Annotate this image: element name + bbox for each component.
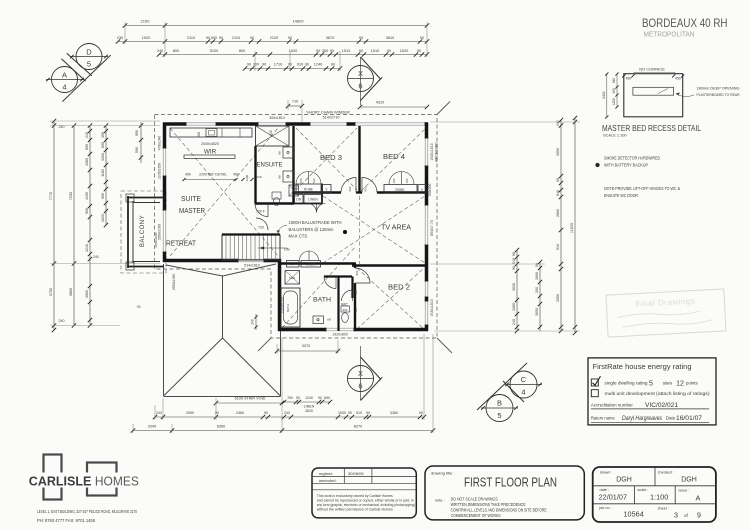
svg-text:90: 90 xyxy=(512,266,516,270)
svg-text:1290: 1290 xyxy=(245,174,249,181)
svg-text:11520: 11520 xyxy=(570,223,574,233)
svg-text:7290: 7290 xyxy=(69,192,73,200)
svg-text:2950x1090: 2950x1090 xyxy=(158,224,162,240)
svg-text:job no. :: job no. : xyxy=(598,506,613,510)
svg-text:DN: DN xyxy=(296,198,301,202)
svg-text:TV AREA: TV AREA xyxy=(381,225,411,232)
windows on right wall xyxy=(425,138,429,166)
svg-text:240: 240 xyxy=(556,120,560,126)
svg-text:900: 900 xyxy=(85,208,89,214)
svg-text:BORDEAUX 40 RH: BORDEAUX 40 RH xyxy=(642,16,728,30)
svg-text:90: 90 xyxy=(331,63,335,67)
svg-text:1510: 1510 xyxy=(342,49,350,53)
balustrade wall xyxy=(222,233,280,235)
corridor boxes DN LINEN xyxy=(295,195,304,204)
svg-text:1085: 1085 xyxy=(85,158,89,166)
right dimension chain b (overall) xyxy=(574,118,576,333)
svg-text:12: 12 xyxy=(676,380,684,387)
wc toilet xyxy=(341,306,350,312)
section cut lines top-left xyxy=(67,53,92,75)
linen v boxes lower xyxy=(287,261,300,268)
svg-text:90: 90 xyxy=(417,49,421,53)
left mid dimension chain xyxy=(140,122,142,163)
svg-text:Accreditation number: Accreditation number xyxy=(591,403,633,408)
top dimension tier 4 xyxy=(245,68,340,70)
svg-text:VB: VB xyxy=(327,318,331,322)
svg-text:590: 590 xyxy=(135,147,139,153)
ensuite skylight hatch xyxy=(256,126,290,146)
small dim 240 left of wing xyxy=(255,314,257,330)
svg-text:METROPOLITAN: METROPOLITAN xyxy=(644,30,695,39)
section marker X/6 bottom xyxy=(348,366,374,392)
svg-text:1240: 1240 xyxy=(85,244,89,252)
svg-text:720: 720 xyxy=(405,178,409,183)
svg-text:240: 240 xyxy=(156,411,162,415)
svg-text:2040x4520: 2040x4520 xyxy=(201,142,219,146)
carlisle logo bracket 1 xyxy=(44,455,62,500)
svg-text:3100: 3100 xyxy=(210,49,218,53)
svg-text:LEVEL 1, EAST BUILDING, 327-34: LEVEL 1, EAST BUILDING, 327-347 POLICE R… xyxy=(37,509,138,514)
svg-text:3050: 3050 xyxy=(535,308,539,316)
lower wing interior xyxy=(281,262,356,264)
svg-text:90: 90 xyxy=(250,36,254,40)
svg-text:3670: 3670 xyxy=(326,36,334,40)
svg-text:1080: 1080 xyxy=(512,303,516,311)
svg-text:VIC/02/021: VIC/02/021 xyxy=(645,402,678,409)
svg-text:90: 90 xyxy=(296,396,300,400)
svg-text:This work is exclusively owned: This work is exclusively owned by Carlis… xyxy=(317,494,393,498)
svg-text:890: 890 xyxy=(101,142,105,148)
svg-text:1200: 1200 xyxy=(612,98,616,105)
svg-text:2150: 2150 xyxy=(141,19,151,24)
svg-text:90: 90 xyxy=(330,49,334,53)
svg-text:90: 90 xyxy=(262,63,266,67)
svg-text:issue :: issue : xyxy=(679,488,690,492)
ceiling diagonal bed4 xyxy=(361,129,425,191)
svg-text:890: 890 xyxy=(85,144,89,150)
svg-text:514x1810: 514x1810 xyxy=(244,264,259,268)
svg-text:1690: 1690 xyxy=(535,272,539,280)
svg-text:3050: 3050 xyxy=(556,294,560,302)
left dimension chain 1 xyxy=(53,121,55,330)
ensuite door xyxy=(255,204,268,217)
svg-text:3: 3 xyxy=(674,513,678,520)
svg-text:450: 450 xyxy=(233,173,239,177)
svg-text:Date: Date xyxy=(666,416,676,421)
svg-text:540: 540 xyxy=(512,258,516,264)
dimension extension verticals top xyxy=(124,22,126,44)
svg-text:1710: 1710 xyxy=(274,63,282,67)
svg-text:540: 540 xyxy=(269,130,273,136)
svg-text:4310: 4310 xyxy=(376,101,384,105)
svg-text:WRITTEN DIMENSIONS TAKE PRECED: WRITTEN DIMENSIONS TAKE PRECEDENCE xyxy=(451,502,526,507)
svg-text:2460: 2460 xyxy=(236,411,244,415)
left wing bottom wall xyxy=(163,259,281,263)
svg-text:90: 90 xyxy=(512,252,516,256)
svg-text:LINEN: LINEN xyxy=(308,198,318,202)
svg-text:ENSUITE WC DOOR: ENSUITE WC DOOR xyxy=(604,193,638,198)
svg-text:720: 720 xyxy=(299,178,303,183)
bath vanity xyxy=(313,316,324,324)
svg-text:14820: 14820 xyxy=(292,19,304,24)
linen double doors xyxy=(308,204,317,213)
svg-text:RECESSED: RECESSED xyxy=(435,142,439,162)
svg-text:3030: 3030 xyxy=(512,283,516,291)
ceiling diagonals bed3 xyxy=(296,128,357,190)
svg-text:A: A xyxy=(62,71,67,80)
svg-text:300x300: 300x300 xyxy=(428,184,432,197)
window on retreat bottom wall xyxy=(238,259,264,263)
svg-text:450: 450 xyxy=(675,77,681,81)
svg-text:2110: 2110 xyxy=(187,36,195,40)
svg-text:HOMES: HOMES xyxy=(95,474,139,489)
svg-text:2440: 2440 xyxy=(602,91,606,99)
corner hip marks xyxy=(437,338,452,353)
svg-text:2040: 2040 xyxy=(148,425,156,429)
svg-text:500: 500 xyxy=(211,36,217,40)
svg-text:FirstRate house energy rating: FirstRate house energy rating xyxy=(593,364,692,371)
dim 4310 top right xyxy=(360,106,427,108)
ensuite wc + shower xyxy=(272,192,281,199)
svg-text:ROBE: ROBE xyxy=(304,188,313,192)
svg-text:90: 90 xyxy=(348,411,352,415)
svg-text:5100 STAIR VOID: 5100 STAIR VOID xyxy=(235,397,266,401)
svg-text:1240: 1240 xyxy=(314,63,322,67)
svg-text:ENSUITE: ENSUITE xyxy=(257,163,283,169)
svg-text:PLASTERBOARD TO REAR: PLASTERBOARD TO REAR xyxy=(697,92,740,97)
svg-text:8540/7.70: 8540/7.70 xyxy=(430,220,434,236)
stairs xyxy=(222,235,280,260)
WIR internal dim xyxy=(184,179,236,181)
svg-text:720: 720 xyxy=(354,290,358,295)
svg-text:DO NOT SCALE DRAWINGS: DO NOT SCALE DRAWINGS xyxy=(451,496,498,501)
svg-text:300: 300 xyxy=(322,49,328,53)
svg-text:90: 90 xyxy=(387,49,391,53)
svg-text:5: 5 xyxy=(87,60,91,69)
svg-text:720: 720 xyxy=(354,307,358,312)
left dimension chain 2 xyxy=(73,126,75,326)
ensuite vanity xyxy=(283,147,294,158)
svg-text:BALCONY: BALCONY xyxy=(140,215,146,247)
svg-text:DN: DN xyxy=(284,248,290,252)
lower wing left wall xyxy=(278,259,282,331)
svg-text:scale :: scale : xyxy=(637,488,648,492)
svg-text:90: 90 xyxy=(288,36,292,40)
svg-text:CARLISLE: CARLISLE xyxy=(29,474,92,489)
svg-text:450: 450 xyxy=(626,77,632,81)
svg-text:BED 4: BED 4 xyxy=(383,154,405,161)
svg-text:90: 90 xyxy=(219,36,223,40)
smoke detector note xyxy=(596,163,600,167)
svg-text:COMMENCEMENT OF WORKS: COMMENCEMENT OF WORKS xyxy=(451,513,501,518)
svg-text:820: 820 xyxy=(364,186,368,191)
svg-text:SUITE: SUITE xyxy=(181,196,201,203)
svg-text:3050: 3050 xyxy=(556,148,560,156)
svg-text:90: 90 xyxy=(137,305,141,309)
svg-text:820: 820 xyxy=(348,186,352,191)
wc door xyxy=(342,290,353,301)
balcony eaves dashed xyxy=(121,191,166,273)
svg-text:510: 510 xyxy=(556,244,560,250)
svg-text:240: 240 xyxy=(157,49,163,53)
bed4 door xyxy=(362,178,377,193)
svg-text:drawn :: drawn : xyxy=(600,470,612,474)
left dimension chain 3 xyxy=(89,126,91,326)
svg-text:3260: 3260 xyxy=(101,153,105,161)
svg-text:240: 240 xyxy=(284,411,290,415)
svg-text:2950: 2950 xyxy=(186,411,194,415)
lower linen doors xyxy=(300,251,310,261)
svg-text:multi unit development (attac: multi unit development (attach listing o… xyxy=(605,391,711,396)
svg-text:2200 REF DETAIL: 2200 REF DETAIL xyxy=(199,173,227,177)
svg-text:5: 5 xyxy=(497,411,501,420)
svg-text:CONFIRM ALL LEVELS AND DIMENSI: CONFIRM ALL LEVELS AND DIMENSIONS ON SIT… xyxy=(451,507,547,512)
left dimension chain 4 xyxy=(105,126,107,226)
svg-text:2620: 2620 xyxy=(305,409,313,413)
svg-text:1000H BALUSTRADE WITH: 1000H BALUSTRADE WITH xyxy=(289,220,342,225)
svg-text:BED 3: BED 3 xyxy=(320,155,342,162)
section marker C/4 xyxy=(510,371,537,398)
svg-text:90: 90 xyxy=(215,411,219,415)
section marker B/5 xyxy=(486,395,513,422)
svg-text:720: 720 xyxy=(312,178,316,183)
svg-text:800: 800 xyxy=(239,49,245,53)
top dimension tier 3 xyxy=(159,54,427,56)
svg-text:90: 90 xyxy=(318,396,322,400)
right dimension chain d xyxy=(539,262,541,331)
svg-text:LINEN: LINEN xyxy=(304,405,315,409)
svg-text:VB: VB xyxy=(278,151,282,155)
svg-text:NOTE-PROVIDE LIFT-OFF HINGES T: NOTE-PROVIDE LIFT-OFF HINGES TO WC & xyxy=(604,186,680,191)
svg-text:amended:: amended: xyxy=(319,478,337,483)
right extension horizontals xyxy=(430,121,580,123)
svg-text:950: 950 xyxy=(135,130,139,136)
svg-text:90: 90 xyxy=(419,411,423,415)
section marker X/6 top xyxy=(348,66,374,92)
bottom tier 3 xyxy=(133,430,433,432)
section marker A/4 xyxy=(52,67,78,93)
svg-text:stars: stars xyxy=(663,380,673,385)
svg-text:2860: 2860 xyxy=(556,209,560,217)
svg-text:514x2710: 514x2710 xyxy=(322,115,340,120)
interior walls xyxy=(254,146,256,204)
svg-text:470x1040: 470x1040 xyxy=(158,136,162,151)
windows on left wall xyxy=(163,148,167,176)
svg-text:3660: 3660 xyxy=(69,288,73,296)
recess detail inner box xyxy=(633,87,674,95)
ceiling diagonals tv area xyxy=(323,196,425,263)
svg-text:checked :: checked : xyxy=(658,470,674,474)
svg-text:9: 9 xyxy=(697,513,701,520)
window on bottom wall xyxy=(326,328,354,332)
svg-text:BALUSTERS @ 125mm: BALUSTERS @ 125mm xyxy=(289,227,334,232)
svg-text:4190: 4190 xyxy=(85,192,89,200)
logo text band xyxy=(25,473,146,488)
svg-text:1920: 1920 xyxy=(142,36,150,40)
svg-text:240: 240 xyxy=(59,319,65,323)
svg-text:90: 90 xyxy=(247,63,251,67)
svg-text:3360: 3360 xyxy=(390,411,398,415)
svg-text:510: 510 xyxy=(356,411,362,415)
svg-text:any form (graphic, electronic: any form (graphic, electronic or mechani… xyxy=(317,503,415,507)
recess detail outer box xyxy=(624,74,683,117)
svg-text:690: 690 xyxy=(324,396,330,400)
WIR robe band xyxy=(170,128,252,137)
ceiling diagonal corridor xyxy=(282,246,356,328)
svg-text:6350: 6350 xyxy=(217,425,225,429)
svg-text:2120: 2120 xyxy=(270,36,278,40)
svg-text:1920x600: 1920x600 xyxy=(332,333,347,337)
section cut lines bottom-right xyxy=(477,363,527,410)
svg-text:720: 720 xyxy=(258,226,264,230)
svg-text:1920x1810: 1920x1810 xyxy=(430,143,434,160)
svg-text:300: 300 xyxy=(535,287,539,293)
svg-text:1180: 1180 xyxy=(101,169,105,177)
svg-text:1240: 1240 xyxy=(305,396,313,400)
svg-text:note :: note : xyxy=(435,497,445,502)
svg-text:2110: 2110 xyxy=(232,36,240,40)
svg-text:800: 800 xyxy=(173,49,179,53)
svg-text:date :: date : xyxy=(600,488,610,492)
title box xyxy=(425,466,584,520)
svg-text:90: 90 xyxy=(305,63,309,67)
svg-text:1:100: 1:100 xyxy=(650,493,668,502)
svg-text:3370: 3370 xyxy=(302,344,310,348)
svg-text:90: 90 xyxy=(535,263,539,267)
svg-text:8270: 8270 xyxy=(354,425,362,429)
outer wall left xyxy=(163,123,167,263)
small dim 710 xyxy=(288,105,302,107)
svg-text:PH: 8793 4777 FAX: 9701 1455: PH: 8793 4777 FAX: 9701 1455 xyxy=(37,518,96,523)
svg-text:1920x1810: 1920x1810 xyxy=(430,299,434,316)
svg-text:900: 900 xyxy=(101,193,105,199)
checkbox multi unit xyxy=(591,390,598,397)
bed2 door xyxy=(355,268,370,283)
roof outline lower left xyxy=(163,264,165,396)
svg-text:820: 820 xyxy=(355,270,359,275)
svg-text:710: 710 xyxy=(292,100,298,104)
outer wall top xyxy=(163,122,428,126)
stair void dim xyxy=(216,402,282,404)
svg-text:WIR: WIR xyxy=(204,149,217,156)
section marker D/5 xyxy=(76,44,102,70)
svg-text:RETREAT: RETREAT xyxy=(166,241,197,248)
svg-text:ROBE: ROBE xyxy=(395,188,404,192)
smoke detector dot xyxy=(343,230,347,234)
stairs arrow DN xyxy=(258,247,287,249)
svg-text:4: 4 xyxy=(62,83,66,92)
svg-text:BATH: BATH xyxy=(286,304,290,312)
svg-text:LINEN: LINEN xyxy=(306,263,316,267)
bed3 door xyxy=(341,178,356,193)
bath door xyxy=(324,277,336,289)
WIR shelf xyxy=(184,155,235,159)
svg-text:390: 390 xyxy=(101,132,105,138)
left extension horizontals xyxy=(50,120,160,122)
bed3 robe xyxy=(296,184,321,193)
svg-text:BATH: BATH xyxy=(313,297,331,304)
svg-text:register:: register: xyxy=(319,471,333,476)
svg-text:WC: WC xyxy=(341,302,348,307)
svg-text:240: 240 xyxy=(93,255,99,259)
bulkhead dashed line xyxy=(359,196,361,264)
bed4 robe xyxy=(384,185,417,194)
svg-text:300x1810: 300x1810 xyxy=(269,116,284,120)
svg-text:22/01/07: 22/01/07 xyxy=(599,493,627,502)
svg-text:840: 840 xyxy=(612,78,616,84)
svg-text:D: D xyxy=(86,48,92,57)
shower upper hatch xyxy=(289,185,299,196)
svg-text:4: 4 xyxy=(521,388,525,397)
recess leader xyxy=(676,94,694,97)
ceiling diagonals bed2 xyxy=(357,268,424,329)
roof hips xyxy=(164,338,223,396)
svg-text:C: C xyxy=(521,375,527,384)
info box xyxy=(593,467,716,522)
svg-text:240: 240 xyxy=(512,319,516,325)
top dimension tier 2 xyxy=(118,41,427,43)
svg-text:without the written permission: without the written permission of Carlis… xyxy=(317,507,393,511)
svg-text:720: 720 xyxy=(392,178,396,183)
svg-text:MAX CTS: MAX CTS xyxy=(289,234,308,239)
carlisle logo bracket 2 xyxy=(87,463,117,496)
register box xyxy=(312,468,416,518)
shower lower hatch xyxy=(285,271,300,285)
bed3 robe doors xyxy=(296,172,309,185)
right dimension chain c xyxy=(516,250,518,331)
ceiling diagonals master suite xyxy=(170,128,278,256)
svg-text:SHR: SHR xyxy=(289,276,295,280)
svg-text:90: 90 xyxy=(556,178,560,182)
svg-text:SMOKE DETECTOR HARDWIRED: SMOKE DETECTOR HARDWIRED xyxy=(604,156,660,161)
svg-text:A: A xyxy=(696,494,701,503)
svg-text:30/08/06: 30/08/06 xyxy=(348,471,364,476)
svg-text:BED 2: BED 2 xyxy=(388,285,410,292)
svg-text:900: 900 xyxy=(343,308,348,312)
svg-text:90: 90 xyxy=(264,411,268,415)
checkbox single dwelling xyxy=(591,379,598,386)
svg-text:90: 90 xyxy=(359,49,363,53)
svg-text:130: 130 xyxy=(256,175,261,179)
svg-text:3750: 3750 xyxy=(49,288,53,296)
svg-text:760: 760 xyxy=(287,396,293,400)
svg-text:180mm DEEP OPENING: 180mm DEEP OPENING xyxy=(697,86,740,91)
recess detail left dims xyxy=(606,74,608,117)
final drawings stamp xyxy=(606,289,726,337)
balcony xyxy=(127,196,129,268)
svg-text:900: 900 xyxy=(197,132,201,138)
svg-text:5: 5 xyxy=(649,380,653,387)
svg-text:10564: 10564 xyxy=(624,510,644,519)
svg-text:single dwelling rating: single dwelling rating xyxy=(605,380,649,385)
svg-text:90: 90 xyxy=(206,36,210,40)
svg-text:610: 610 xyxy=(297,63,303,67)
svg-text:90: 90 xyxy=(420,36,424,40)
svg-text:points: points xyxy=(686,380,699,385)
bed4 robe doors xyxy=(389,172,402,185)
svg-text:3060: 3060 xyxy=(85,290,89,298)
outer wall right xyxy=(425,123,429,332)
right dimension chain a xyxy=(560,120,562,331)
svg-text:7770: 7770 xyxy=(49,192,53,200)
svg-text:540: 540 xyxy=(556,190,560,196)
top dimension tier 1 xyxy=(125,25,427,27)
svg-text:SCALE 1:100: SCALE 1:100 xyxy=(603,133,627,138)
svg-text:and cannot be reproduced or co: and cannot be reproduced or copied, eith… xyxy=(317,498,414,502)
bottom extension verticals xyxy=(154,405,156,420)
svg-text:1510: 1510 xyxy=(371,49,379,53)
windows on top wall xyxy=(186,122,216,126)
